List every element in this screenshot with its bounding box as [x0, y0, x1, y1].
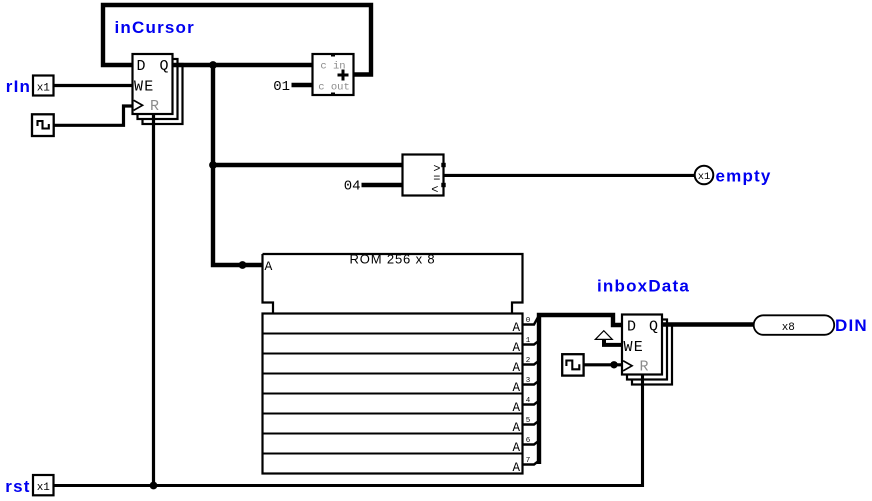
- node junction on inboxData clock wire: [610, 361, 617, 368]
- wire Q bus from inCursor to adder input a: [173, 63, 313, 67]
- input pin rIn box: [33, 76, 54, 96]
- wire clock to inboxData C: [584, 363, 622, 366]
- svg-text:x1: x1: [37, 482, 51, 494]
- wire bit 4 tap: [523, 401, 539, 405]
- svg-text:6: 6: [526, 437, 531, 445]
- wire bus branch to comparator input a: [213, 163, 403, 167]
- wire ROM output bus vertical and to inboxData D: [539, 315, 622, 464]
- wire comparator equals output to empty pin: [444, 174, 696, 177]
- svg-text:04: 04: [344, 179, 361, 195]
- svg-text:DIN: DIN: [835, 316, 868, 335]
- svg-text:D: D: [137, 58, 146, 75]
- comparator U2: [403, 155, 446, 198]
- svg-text:inboxData: inboxData: [597, 277, 690, 296]
- ROM 256 x 8 body: [263, 252, 523, 314]
- svg-text:empty: empty: [716, 167, 772, 186]
- svg-text:A: A: [512, 441, 520, 455]
- svg-text:A: A: [512, 341, 520, 355]
- svg-text:x8: x8: [782, 322, 795, 334]
- wire clock to inCursor C: [54, 106, 133, 125]
- svg-text:5: 5: [526, 417, 531, 425]
- svg-text:1: 1: [526, 337, 531, 345]
- wire bit 6 tap: [523, 441, 539, 445]
- ROM output rows stack: [263, 314, 523, 476]
- svg-text:WE: WE: [134, 78, 154, 95]
- svg-text:A: A: [512, 381, 520, 395]
- svg-text:WE: WE: [624, 339, 644, 356]
- svg-text:rst: rst: [5, 477, 30, 496]
- svg-text:A: A: [512, 421, 520, 435]
- node junction at comparator branch: [209, 161, 217, 169]
- svg-text:ROM 256 x 8: ROM 256 x 8: [350, 252, 436, 267]
- svg-text:R: R: [150, 98, 159, 115]
- node junction of rst and inCursor R wire: [150, 482, 158, 490]
- output pin DIN tag: [754, 315, 835, 335]
- output pin empty: [695, 166, 714, 185]
- svg-text:R: R: [640, 359, 649, 376]
- wire bit 0 tap: [523, 315, 540, 324]
- svg-text:x1: x1: [698, 171, 711, 183]
- adder U1: [313, 54, 354, 95]
- svg-text:A: A: [512, 461, 520, 475]
- svg-text:0: 0: [526, 317, 531, 325]
- wire bit 1 tap: [523, 341, 539, 345]
- svg-text:x1: x1: [37, 82, 51, 94]
- clock source for inCursor: [32, 114, 54, 136]
- wire address bus down from Q to ROM A: [213, 65, 263, 265]
- svg-text:A: A: [512, 321, 520, 335]
- wire inboxData Q to DIN: [663, 322, 756, 326]
- svg-text:Q: Q: [159, 58, 168, 75]
- svg-text:inCursor: inCursor: [115, 18, 195, 37]
- wire constant 04 to comparator input b: [362, 183, 403, 187]
- wire bit 3 tap: [523, 381, 539, 385]
- clock source for inboxData: [562, 354, 583, 375]
- svg-text:A: A: [265, 259, 273, 274]
- wire bit 2 tap: [523, 361, 539, 365]
- wire feedback loop bus from adder output to inCursor D: [103, 5, 371, 75]
- svg-text:7: 7: [526, 457, 531, 465]
- svg-text:c out: c out: [318, 82, 350, 94]
- wire constant 01 to adder input b: [292, 83, 313, 87]
- svg-text:<: <: [431, 183, 438, 197]
- wire bit 7 tap: [523, 461, 539, 465]
- wire rIn to inCursor WE: [54, 84, 133, 87]
- svg-text:A: A: [512, 401, 520, 415]
- register inCursor: [133, 54, 183, 124]
- svg-text:2: 2: [526, 357, 531, 365]
- input pin rst box: [33, 475, 54, 495]
- svg-text:D: D: [627, 318, 636, 335]
- constant high symbol for WE: [595, 331, 622, 345]
- svg-text:3: 3: [526, 377, 531, 385]
- svg-text:01: 01: [273, 79, 290, 95]
- svg-text:A: A: [512, 361, 520, 375]
- svg-text:rIn: rIn: [6, 77, 31, 96]
- wire rst line across bottom and up to inboxData R: [54, 375, 643, 486]
- node junction on Q bus: [209, 61, 217, 69]
- wire bit 5 tap: [523, 421, 539, 425]
- register inboxData: [622, 315, 672, 385]
- svg-text:4: 4: [526, 397, 531, 405]
- svg-text:Q: Q: [649, 318, 658, 335]
- wire inCursor R down to rst line: [152, 114, 155, 486]
- node junction on ROM address wire: [239, 261, 247, 269]
